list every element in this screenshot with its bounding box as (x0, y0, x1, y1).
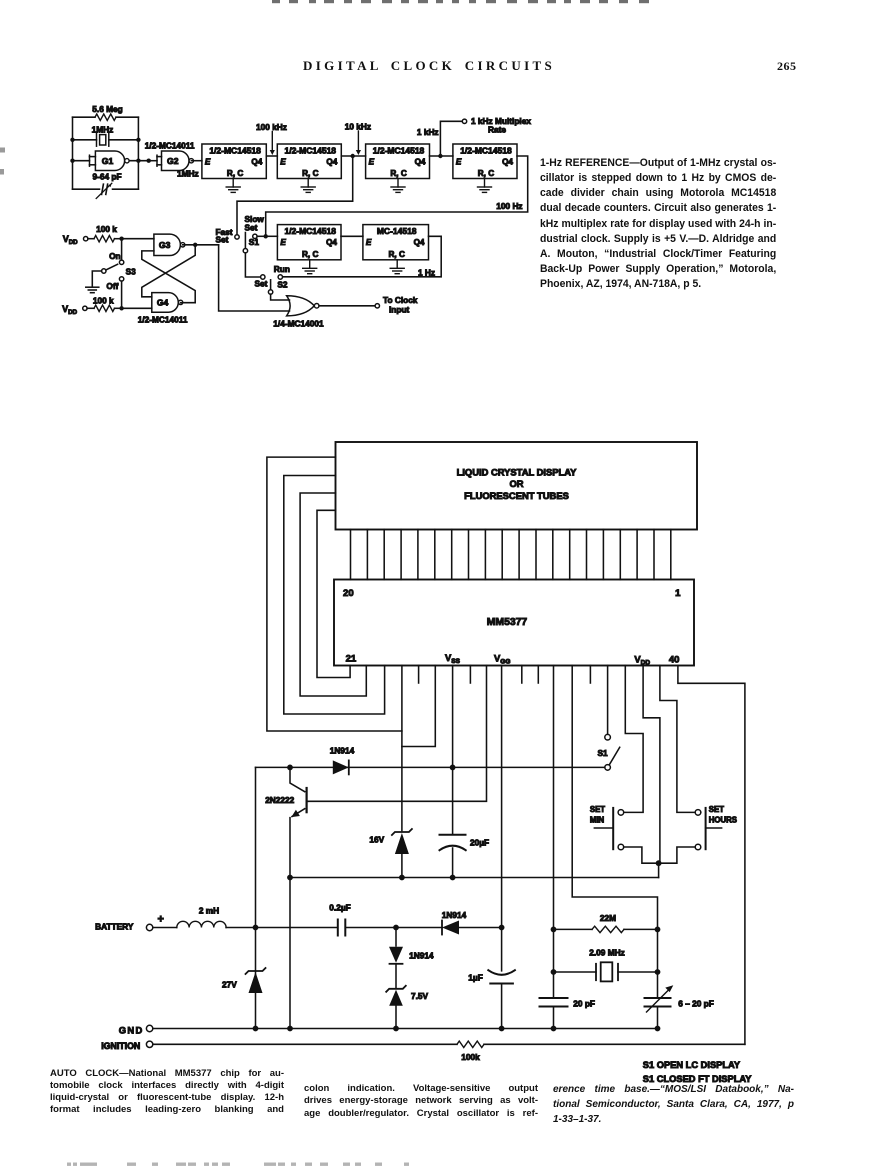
svg-text:E: E (280, 158, 286, 167)
capacitor C2 20uF (440, 834, 466, 836)
svg-text:Q4: Q4 (326, 158, 337, 167)
svg-text:100 k: 100 k (93, 295, 114, 305)
svg-text:100k: 100k (461, 1052, 480, 1062)
svg-text:G4: G4 (157, 298, 169, 308)
ground under U6 (396, 260, 398, 269)
wire cross-couple G4out to G3in (142, 251, 195, 303)
wire chip pin 22M right rail (572, 666, 657, 998)
wire display loop 3 (300, 493, 366, 696)
node G1-in (70, 159, 74, 163)
wire SET MIN lower contact (624, 847, 656, 863)
wire U6.Q4 1Hz (283, 236, 442, 276)
wire 1kHz tap (440, 121, 462, 156)
svg-text:E: E (205, 158, 211, 167)
svg-text:S1 CLOSED FT DISPLAY: S1 CLOSED FT DISPLAY (643, 1074, 752, 1084)
wire 27V branch (255, 767, 257, 1028)
node doubler-zener (399, 875, 405, 881)
svg-text:G2: G2 (167, 156, 179, 166)
node crystal-left (70, 138, 74, 142)
node crystal-right (136, 138, 140, 142)
svg-text:22M: 22M (600, 913, 616, 923)
node doubler-emitter (287, 875, 293, 881)
svg-text:1MHz: 1MHz (177, 169, 199, 179)
svg-text:R, C: R, C (390, 169, 406, 178)
switch SET MIN pushbutton (612, 808, 614, 849)
svg-text:VGG: VGG (494, 653, 510, 666)
terminal S1 top (605, 734, 611, 740)
svg-text:1/2-MC14518: 1/2-MC14518 (209, 145, 261, 155)
terminal Off contact (119, 277, 123, 281)
diode D5 1N914 shunt (395, 928, 397, 947)
wire chip pin to zener rail (401, 731, 403, 831)
wire chip pin stub x538.3 (537, 666, 539, 684)
switch S2 arm (270, 280, 272, 290)
counter U2 1/2-MC14518 (277, 144, 341, 179)
wire G2 input (149, 160, 157, 162)
svg-text:S2: S2 (277, 280, 288, 290)
op-amp G1 (NAND gate) (95, 151, 124, 171)
svg-text:10 kHz: 10 kHz (345, 122, 371, 132)
node G1-out (136, 159, 140, 163)
node doubler-cap (450, 875, 456, 881)
wire IGNITION rail (153, 1043, 457, 1045)
svg-text:On: On (109, 251, 121, 261)
cut-off text row at top edge (272, 0, 280, 3)
svg-text:1MHz: 1MHz (92, 124, 114, 134)
diode D1 1N914 (333, 760, 349, 774)
wire G2 out to U1 (191, 160, 202, 162)
node GND x255.5 (253, 1026, 259, 1032)
wire chip pin stub x418.6 (418, 666, 420, 684)
wire GND rail (153, 1028, 658, 1030)
node U5.E junction (264, 234, 268, 238)
crystal Y2 2.09 MHz (554, 971, 597, 973)
page header (303, 58, 555, 74)
terminal Set contact (261, 275, 265, 279)
diode D4 zener 27V (246, 968, 266, 974)
op-amp G3 (NAND gate) (154, 234, 181, 255)
wire node to U5.E (266, 235, 278, 237)
svg-text:100 k: 100 k (96, 224, 117, 234)
svg-text:R, C: R, C (302, 169, 318, 178)
svg-text:1/2-MC14518: 1/2-MC14518 (460, 145, 512, 155)
svg-text:GND: GND (119, 1025, 144, 1036)
svg-text:Set: Set (245, 222, 258, 232)
counter U3 1/2-MC14518 (366, 144, 430, 179)
switch SET HOURS pushbutton (705, 808, 707, 849)
svg-text:Input: Input (389, 305, 410, 315)
svg-text:1/4-MC14001: 1/4-MC14001 (273, 318, 324, 328)
node collector junction (287, 765, 293, 771)
wire G4 output (181, 302, 196, 304)
wire chip pin to SET HOURS top (660, 666, 701, 813)
wire oscillator feedback loop (left rail) (72, 117, 74, 189)
svg-text:Off: Off (106, 281, 118, 291)
wire chip pin 40 VDD rail (678, 666, 745, 1045)
svg-text:21: 21 (346, 654, 357, 665)
terminal S1 slow contact (253, 234, 257, 238)
wire between diodes (395, 965, 397, 988)
svg-text:1/2-MC14518: 1/2-MC14518 (285, 145, 337, 155)
svg-text:20: 20 (343, 588, 354, 599)
wire display loop 1 (267, 457, 402, 731)
svg-text:1N914: 1N914 (409, 951, 434, 961)
node GND x657.5 (655, 1026, 661, 1032)
node battery-27V (253, 925, 259, 931)
wire chip pin stub x470.4 (469, 666, 471, 684)
svg-text:S1: S1 (598, 748, 609, 758)
display block LCD/fluorescent (336, 442, 698, 530)
wire chip pin to pushbutton common (643, 666, 660, 861)
svg-text:E: E (369, 158, 375, 167)
svg-text:Rate: Rate (488, 124, 506, 134)
node 1kHz junction (438, 154, 442, 158)
wire to G3 input (122, 238, 154, 240)
svg-text:VDD: VDD (62, 304, 77, 316)
svg-text:R, C: R, C (302, 250, 318, 259)
wire emitter down (289, 818, 291, 1029)
terminal S2 common (268, 290, 272, 294)
svg-text:2 mH: 2 mH (199, 905, 219, 915)
node On junction (119, 237, 123, 241)
wire G1 input (73, 160, 90, 162)
terminal S3 common (102, 269, 106, 273)
switch S1 arm (bottom) (609, 747, 619, 765)
arrow 100 kHz (271, 132, 273, 152)
svg-text:VSS: VSS (445, 652, 461, 665)
svg-text:7.5V: 7.5V (411, 991, 429, 1001)
svg-text:E: E (280, 238, 286, 247)
wire U5.Q4 to U6.E (341, 235, 363, 237)
switch S3 arm (106, 264, 118, 270)
wire Off to lower node (121, 281, 123, 308)
caption paragraph 1-Hz REFERENCE (540, 156, 776, 292)
svg-text:HOURS: HOURS (709, 816, 737, 825)
wire slow contact to node (257, 235, 266, 237)
resistor R1 5.6 Meg (73, 116, 96, 118)
wire S1 common to Set (245, 253, 260, 277)
wire U3.Q4 to U4.E (430, 155, 453, 157)
svg-text:1: 1 (675, 588, 681, 599)
svg-text:+: + (158, 914, 164, 926)
node GND x396 (393, 1026, 399, 1032)
capacitor C5 20 pF (540, 997, 568, 999)
svg-text:S1 OPEN LC DISPLAY: S1 OPEN LC DISPLAY (643, 1060, 741, 1070)
terminal Run contact (278, 275, 282, 279)
svg-text:MIN: MIN (590, 816, 605, 825)
caption column 1 AUTO CLOCK (50, 1068, 284, 1117)
svg-text:MM5377: MM5377 (487, 617, 528, 628)
svg-text:6 – 20 pF: 6 – 20 pF (678, 998, 714, 1008)
node G3 out junction (193, 243, 197, 247)
counter U6 MC-14518 (363, 225, 429, 260)
svg-text:Set: Set (255, 279, 268, 289)
svg-text:SET: SET (709, 805, 724, 814)
chip U8 MM5377 (334, 580, 694, 666)
wire G3 out to NOR (219, 245, 290, 311)
terminal S1 common (243, 249, 247, 253)
svg-text:1/2-MC14518: 1/2-MC14518 (373, 145, 425, 155)
ground under U4 (484, 179, 486, 188)
svg-text:OR: OR (509, 478, 523, 489)
diode D3 1N914 series (442, 921, 459, 935)
svg-text:IGNITION: IGNITION (101, 1041, 140, 1051)
wire display loop 4 (317, 510, 350, 677)
wire On contact drop (121, 239, 123, 260)
node 22M right (655, 927, 661, 933)
svg-text:1µF: 1µF (468, 973, 482, 983)
node GND x290 (287, 1026, 293, 1032)
node crystal right (655, 969, 661, 975)
svg-text:100 kHz: 100 kHz (256, 122, 287, 132)
svg-text:E: E (366, 238, 372, 247)
wire chip pin 22M left rail (553, 666, 555, 998)
node Off junction (119, 306, 123, 310)
transistor Q1 2N2222 (290, 767, 305, 791)
svg-text:Q4: Q4 (251, 158, 262, 167)
svg-text:16V: 16V (369, 835, 384, 845)
svg-text:1N914: 1N914 (442, 910, 467, 920)
terminal S1 bottom (605, 765, 611, 771)
wire SET HOURS lower contact (662, 847, 696, 863)
counter U1 1/2-MC14518 (202, 144, 266, 179)
wire U1.Q4 to U2.E (266, 155, 277, 157)
node VGG junction (499, 925, 505, 931)
wire chip pin VGG line (501, 666, 503, 971)
ground under U2 (307, 179, 309, 188)
op-amp G4 (NAND gate) (152, 293, 179, 313)
svg-text:Q4: Q4 (326, 238, 337, 247)
resistor R4 22M (554, 928, 593, 930)
inductor L1 2 mH (153, 927, 177, 929)
node crystal left (551, 969, 557, 975)
resistor R5 100k (457, 1041, 484, 1047)
svg-text:1N914: 1N914 (330, 746, 355, 756)
wire cap to diode (345, 927, 442, 929)
wire U4.Q4 100Hz feedback (266, 156, 528, 236)
diode D2 zener 16V (392, 829, 412, 835)
svg-text:Q4: Q4 (502, 158, 513, 167)
svg-text:FLUORESCENT TUBES: FLUORESCENT TUBES (464, 490, 569, 501)
diode D6 zener 7.5V (386, 986, 406, 992)
svg-text:BATTERY: BATTERY (95, 922, 134, 932)
node diode branch (393, 925, 399, 931)
crystal Y1 1MHz (73, 139, 97, 141)
svg-text:2N2222: 2N2222 (265, 795, 294, 805)
svg-text:20 pF: 20 pF (573, 998, 595, 1008)
wire NOR output (319, 305, 375, 307)
svg-text:VDD: VDD (63, 234, 78, 246)
op-amp U7 NOR gate 1/4-MC14001 (287, 296, 315, 316)
node 22M left (551, 927, 557, 933)
svg-text:20µF: 20µF (470, 838, 489, 848)
svg-text:SET: SET (590, 805, 605, 814)
counter U4 1/2-MC14518 (453, 144, 517, 179)
wire to G4 input (122, 307, 152, 309)
wire S3 to ground (92, 271, 101, 287)
cut-off text row at bottom edge (67, 1163, 71, 1166)
terminal To Clock Input (375, 304, 379, 308)
wire chip pin stub x590.4 (589, 666, 591, 684)
capacitor C4 1uF (488, 970, 515, 975)
svg-text:R, C: R, C (389, 250, 405, 259)
svg-text:Q4: Q4 (415, 158, 426, 167)
wire chip pin stub x521.8 (521, 666, 523, 684)
wires display-to-chip pins 1-20 (350, 530, 352, 580)
svg-text:1/2-MC14011: 1/2-MC14011 (138, 315, 188, 325)
node pushbutton common (656, 860, 662, 866)
svg-text:LIQUID CRYSTAL DISPLAY: LIQUID CRYSTAL DISPLAY (457, 467, 578, 478)
wire doubler rail (290, 877, 659, 879)
specks at left page edge (0, 148, 5, 153)
node GND x501.6 (499, 1026, 505, 1032)
svg-text:1 Hz: 1 Hz (418, 267, 435, 277)
terminal S1 fast contact (235, 235, 239, 239)
svg-text:100 Hz: 100 Hz (496, 201, 522, 211)
wire chip pin VSS line (452, 666, 454, 835)
node GND x553.5 (551, 1026, 557, 1032)
wire 10kHz fast-set feedback (237, 156, 353, 235)
svg-text:Run: Run (274, 264, 290, 274)
svg-text:27V: 27V (222, 980, 237, 990)
caption column 3 (553, 1082, 794, 1128)
page number 265 (777, 59, 797, 74)
svg-text:Q4: Q4 (414, 238, 425, 247)
svg-text:S3: S3 (126, 267, 137, 277)
terminal On contact (119, 260, 123, 264)
svg-text:VDD: VDD (634, 654, 650, 667)
arrow 10 kHz (357, 131, 359, 151)
svg-text:2.09 MHz: 2.09 MHz (589, 947, 625, 957)
terminal 1 kHz multiplex (462, 119, 466, 123)
switch S1 arm (244, 233, 246, 249)
node VSS junction (450, 765, 456, 771)
wire cross-couple G3out to G4in (142, 245, 195, 297)
wire chip pin to SET MIN top (624, 666, 643, 813)
svg-text:9-64 pF: 9-64 pF (92, 171, 121, 181)
wire G3 output (183, 244, 219, 246)
wire U2.Q4 to U3.E (341, 155, 365, 157)
wire chip pin jog to zener rail (402, 666, 435, 747)
node 10kHz junction (351, 154, 355, 158)
svg-text:E: E (456, 158, 462, 167)
wire diode to VGG (459, 927, 502, 929)
svg-text:1 kHz: 1 kHz (417, 127, 439, 137)
svg-text:G1: G1 (102, 156, 114, 166)
wire chip pin to S1 (607, 666, 609, 735)
wire oscillator loop right rail (137, 117, 139, 189)
wire G1 output (130, 160, 149, 162)
wire display loop 2 (284, 476, 385, 715)
svg-text:MC-14518: MC-14518 (377, 226, 417, 236)
caption column 2 (304, 1083, 538, 1121)
svg-text:0.2µF: 0.2µF (329, 903, 350, 913)
capacitor C6 6-20 pF trimmer (645, 997, 671, 999)
wire diode row (256, 766, 605, 768)
svg-text:Set: Set (216, 234, 229, 244)
wire common down (658, 863, 660, 877)
svg-text:S1: S1 (249, 237, 260, 247)
ground under U1 (232, 179, 234, 188)
wire zener to GND (395, 1006, 397, 1029)
capacitor C3 0.2uF (337, 920, 339, 936)
svg-text:1/2-MC14011: 1/2-MC14011 (145, 141, 195, 151)
wire zener to rail (401, 854, 403, 878)
ground under U5 (309, 260, 311, 269)
svg-text:1/2-MC14518: 1/2-MC14518 (284, 226, 336, 236)
svg-text:40: 40 (669, 655, 680, 666)
svg-text:G3: G3 (159, 240, 171, 250)
ground under U3 (397, 179, 399, 188)
wire battery to cap (226, 927, 337, 929)
ground at S3 (86, 286, 99, 288)
node G2-in junction (147, 159, 151, 163)
svg-text:R, C: R, C (227, 169, 243, 178)
wire chip pin base line (308, 666, 487, 802)
wire S2 to NOR input (271, 294, 290, 300)
capacitor C1 9-64 pF trimmer (73, 188, 100, 190)
counter U5 1/2-MC14518 (277, 225, 341, 260)
svg-text:5.6 Meg: 5.6 Meg (92, 104, 122, 114)
svg-text:R, C: R, C (478, 169, 494, 178)
op-amp G2 (NAND gate) (162, 151, 189, 171)
